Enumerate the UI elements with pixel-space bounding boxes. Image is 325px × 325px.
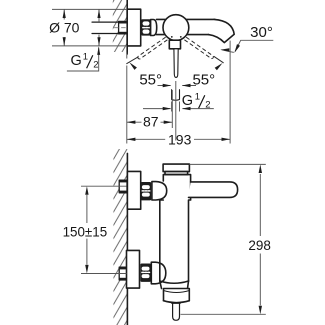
svg-text:193: 193: [168, 131, 192, 147]
svg-text:150±15: 150±15: [63, 224, 108, 239]
svg-text:298: 298: [248, 238, 271, 253]
svg-text:87: 87: [143, 114, 159, 130]
svg-text:55°: 55°: [139, 71, 162, 88]
svg-text:Ø 70: Ø 70: [49, 20, 80, 36]
svg-text:30°: 30°: [250, 24, 273, 41]
svg-text:55°: 55°: [192, 71, 215, 88]
